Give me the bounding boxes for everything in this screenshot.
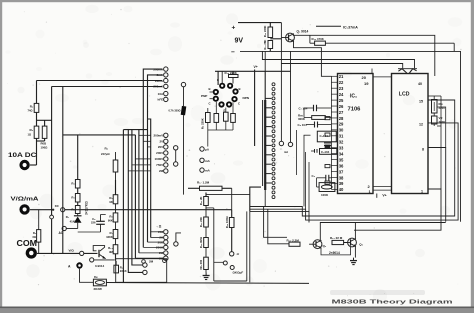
svg-text:IC₁37mA: IC₁37mA xyxy=(343,26,358,30)
wire rail rC xyxy=(132,130,143,265)
socket hFE pin right-upper xyxy=(232,88,238,94)
resistor R2 74ohm xyxy=(34,103,39,112)
resistor R&#8327; divider xyxy=(115,222,117,230)
svg-text:1: 1 xyxy=(421,190,423,194)
svg-text:34: 34 xyxy=(339,151,344,156)
svg-text:25: 25 xyxy=(339,98,344,103)
connector arrow top bar xyxy=(398,68,417,70)
wire box circle feed xyxy=(214,261,223,263)
node mA jack circle xyxy=(230,252,234,256)
wire lcd feed upper xyxy=(262,51,414,68)
resistor hFE bias a xyxy=(214,114,219,123)
switch wafer B contact 6 xyxy=(272,106,275,109)
wire feed to R20 xyxy=(268,209,289,244)
switch wafer B contact 17 xyxy=(272,158,275,161)
svg-text:AC: AC xyxy=(59,231,64,235)
resistor R22 2K xyxy=(204,197,209,206)
svg-text:C₇ 104: C₇ 104 xyxy=(299,107,308,111)
socket hFE pin right-lower xyxy=(231,96,237,102)
fuse R5 2K 2W xyxy=(93,279,106,286)
svg-text:200V: 200V xyxy=(156,151,163,155)
svg-text:mA: mA xyxy=(205,159,211,163)
switch wafer B contact 9 xyxy=(272,120,275,123)
svg-text:221K: 221K xyxy=(120,269,128,273)
svg-text:750V: 750V xyxy=(156,163,163,167)
wire hFE top bus xyxy=(215,70,291,72)
svg-text:31: 31 xyxy=(339,134,344,139)
wire IC bottom links xyxy=(373,185,392,187)
svg-text:DC: DC xyxy=(55,204,59,208)
svg-text:R₂₃ 22K: R₂₃ 22K xyxy=(199,217,203,227)
svg-text:10A: 10A xyxy=(158,92,164,96)
svg-text:1000V: 1000V xyxy=(155,157,164,161)
wire R11 bottom xyxy=(269,49,271,52)
svg-text:2M: 2M xyxy=(159,169,164,173)
wire Q1 emitter to IC pin21 xyxy=(294,41,332,76)
svg-text:R₁₂ 470K: R₁₂ 470K xyxy=(312,37,325,41)
node box circle b xyxy=(163,259,167,263)
svg-text:C₈ 104: C₈ 104 xyxy=(298,123,307,127)
wire C5 bottom link xyxy=(78,231,101,233)
svg-text:V+: V+ xyxy=(382,194,386,198)
svg-text:R₄: R₄ xyxy=(71,208,75,212)
svg-text:+: + xyxy=(232,25,236,32)
svg-text:37: 37 xyxy=(339,169,344,174)
svg-text:C₂104: C₂104 xyxy=(320,134,329,138)
wire rail rG from bank1 row2 xyxy=(148,75,163,242)
wire R19 bottom to A node xyxy=(231,228,233,252)
svg-text:29: 29 xyxy=(339,122,344,127)
switch wafer B contact 20 xyxy=(272,172,275,175)
resistor R11 28K xyxy=(268,41,273,49)
node lone contact a xyxy=(143,263,147,267)
transistor Q4 collector loop xyxy=(93,246,104,251)
svg-text:20V: 20V xyxy=(158,145,163,149)
svg-text:R₁₇ 1.2M: R₁₇ 1.2M xyxy=(197,181,210,185)
resistor R14 117K c xyxy=(75,206,80,214)
wire bottom bus xyxy=(106,282,309,285)
svg-text:39: 39 xyxy=(339,181,344,186)
svg-text:12: 12 xyxy=(419,123,423,127)
svg-text:R₆ 220K: R₆ 220K xyxy=(201,118,205,129)
potentiometer VR1 200 xyxy=(204,257,209,269)
switch wafer B contact 14 xyxy=(272,144,275,147)
svg-text:2×9014: 2×9014 xyxy=(329,251,340,255)
svg-text:R₂₅ 9MΩ: R₂₅ 9MΩ xyxy=(199,236,203,248)
node wafer B aux contact a xyxy=(279,141,283,145)
svg-text:19: 19 xyxy=(364,81,369,86)
LCD body xyxy=(392,74,429,194)
svg-text:2200: 2200 xyxy=(439,106,446,110)
svg-text:↓↓: ↓↓ xyxy=(280,148,283,151)
svg-text:R₁₀ 220K: R₁₀ 220K xyxy=(263,26,267,37)
svg-text:15: 15 xyxy=(419,100,423,104)
capacitor C2 104 box xyxy=(317,131,336,142)
svg-text:32: 32 xyxy=(339,140,344,145)
svg-text:C: C xyxy=(209,102,211,106)
ground Q3 emitter xyxy=(353,258,355,261)
wire Q3 emitter down xyxy=(354,247,356,258)
wire rail rB xyxy=(128,130,143,273)
node lone contact b xyxy=(143,270,147,274)
socket hFE pin bottom-right xyxy=(226,101,232,107)
svg-text:2M: 2M xyxy=(149,260,154,264)
wire chainY bottom xyxy=(115,254,117,261)
svg-text:Ru: Ru xyxy=(94,275,98,279)
svg-text:38: 38 xyxy=(339,175,344,180)
switch wafer B contact 16 xyxy=(272,153,275,156)
svg-text:V/Ω/mA: V/Ω/mA xyxy=(11,197,40,203)
wire LCD pin1 rail xyxy=(354,189,441,230)
terminal box bottom centre xyxy=(206,207,214,209)
svg-text:R₁₉ 100Ω: R₁₉ 100Ω xyxy=(225,216,229,228)
switch bank2 aux contact a xyxy=(174,146,178,150)
svg-text:900K: 900K xyxy=(106,235,112,239)
wire A to fuse xyxy=(80,269,94,283)
switch wafer B contact 15 xyxy=(272,149,275,152)
component stub box pin31 xyxy=(325,133,330,136)
switch wafer B contact 23 xyxy=(272,186,275,189)
wire R21 to Q3 base xyxy=(344,242,347,244)
wire osc left xyxy=(316,178,318,187)
switch wafer B contact 25 xyxy=(272,196,275,199)
wire Q3 collector up xyxy=(354,223,356,239)
svg-text:V/Ω: V/Ω xyxy=(69,249,75,253)
switch bank2 aux contact b xyxy=(174,162,178,166)
wire R12 rail xyxy=(325,42,454,44)
resistor R&#8329; divider xyxy=(115,180,117,195)
svg-text:200mA: 200mA xyxy=(153,85,164,89)
wire bus to R0B xyxy=(51,87,53,254)
wire pin20 stub xyxy=(371,69,373,74)
svg-text:NPN: NPN xyxy=(243,96,250,100)
svg-text:M830B Theory Diagram: M830B Theory Diagram xyxy=(332,300,453,306)
resistor VR 780K box xyxy=(432,116,438,124)
socket hFE pin top-right xyxy=(227,83,233,89)
wire battery plus rail xyxy=(238,22,281,24)
svg-text:74Ω: 74Ω xyxy=(28,109,33,113)
svg-text:↓A: ↓A xyxy=(236,252,239,256)
wire Q1 collector rail xyxy=(293,34,435,77)
node socket mA2 xyxy=(200,168,204,172)
resistor R&#8328; divider xyxy=(115,204,117,213)
wire wafer B top feed xyxy=(264,71,266,100)
switch bank3 aux contact xyxy=(174,242,178,246)
switch wafer B contact 4 xyxy=(272,97,275,100)
switch wafer B contact 18 xyxy=(272,163,275,166)
node socket uA xyxy=(200,147,204,151)
svg-text:6Ω: 6Ω xyxy=(32,235,36,239)
wire rail rE xyxy=(138,130,140,253)
wire COM to Q4 base xyxy=(37,252,98,254)
wire wafer box bottom xyxy=(250,205,258,207)
svg-text:→Ω: →Ω xyxy=(156,225,162,229)
svg-text:20mA: 20mA xyxy=(155,79,164,83)
resistor R0B 100ohm xyxy=(42,126,47,138)
node DC junction xyxy=(61,208,65,212)
resistor Rw 2200 box xyxy=(432,100,438,114)
wire chainX feed xyxy=(77,135,79,180)
socket hFE pin top-left xyxy=(219,83,225,89)
wire caps column down xyxy=(303,135,305,206)
jack V/ohm/mA terminal xyxy=(19,204,29,214)
wire V/ohm/mA bus xyxy=(30,209,53,211)
switch wafer B bus xyxy=(264,100,266,190)
resistor R16 117K a xyxy=(75,180,80,189)
svg-text:20: 20 xyxy=(362,75,367,80)
wire V+ stub xyxy=(254,70,256,72)
wire feed to R21 row xyxy=(264,207,287,238)
zener protection device xyxy=(181,106,187,116)
node mA tap circle xyxy=(50,215,54,219)
svg-text:780K: 780K xyxy=(439,120,446,124)
svg-text:LCD: LCD xyxy=(399,91,410,97)
diode D1 4148 xyxy=(74,215,82,217)
wire bank2 aux bracket xyxy=(175,150,177,162)
svg-text:28: 28 xyxy=(339,116,344,121)
capacitor C5 xyxy=(101,214,106,216)
svg-text:247μΩ: 247μΩ xyxy=(101,152,110,156)
svg-text:27: 27 xyxy=(339,110,344,115)
wire R2-R3 xyxy=(36,112,38,126)
wire R17 leads xyxy=(188,187,200,189)
resistor R4 221K vertical xyxy=(114,265,119,273)
wire left vertical mid box to COM row xyxy=(62,87,64,254)
svg-text:24: 24 xyxy=(339,92,344,97)
socket hFE pin bottom-left xyxy=(218,101,224,107)
svg-text:R₁₁ 28K: R₁₁ 28K xyxy=(263,40,267,50)
svg-text:33: 33 xyxy=(339,146,344,151)
wire Q1 collector to R12 stub xyxy=(309,35,311,43)
transistor Q3 9014 xyxy=(348,238,357,247)
capacitor C2 plates below xyxy=(324,142,331,144)
svg-text:R₂₂ 2K: R₂₂ 2K xyxy=(199,196,203,205)
jack COM terminal xyxy=(26,247,37,258)
jack 10A DC terminal xyxy=(19,160,29,170)
svg-text:3×117KΩ: 3×117KΩ xyxy=(85,201,89,215)
resistor R19 100 xyxy=(229,218,234,228)
wire aux a vertical from battery plus rail xyxy=(280,23,282,142)
transistor Q1 9014 xyxy=(286,33,295,42)
node V out circle xyxy=(80,251,84,255)
node box circle a xyxy=(142,260,146,264)
svg-text:36: 36 xyxy=(339,163,344,168)
svg-text:Q₃: Q₃ xyxy=(359,243,363,247)
wire nested rail 1 xyxy=(250,100,455,216)
switch wafer B contact 7 xyxy=(272,111,275,114)
wire rail bus upper xyxy=(123,129,148,131)
switch wafer B contact 13 xyxy=(272,139,275,142)
switch wafer B contact 19 xyxy=(272,167,275,170)
svg-text:R₁₃: R₁₃ xyxy=(108,246,113,250)
svg-text:35: 35 xyxy=(339,157,344,162)
svg-text:90K: 90K xyxy=(108,218,113,222)
wire bottom chain feed xyxy=(205,193,207,197)
svg-text:40: 40 xyxy=(339,187,344,192)
wire aux b vertical xyxy=(290,51,292,142)
wire zener feed xyxy=(183,87,185,106)
wire caps vertical left xyxy=(303,108,305,118)
connector arrow right wing into LCD xyxy=(409,69,416,73)
svg-text:1Ω: 1Ω xyxy=(28,133,32,137)
capacitor C3 plates left xyxy=(314,149,316,153)
svg-text:100K: 100K xyxy=(321,193,329,197)
svg-text:2V: 2V xyxy=(160,140,164,144)
socket hFE pin left-upper xyxy=(213,89,219,95)
wire zener down xyxy=(183,115,185,195)
node A out donut xyxy=(76,262,82,268)
wire osc rail up a xyxy=(305,152,307,209)
wire chainY top xyxy=(115,180,117,195)
transistor Q4 9014 base bar xyxy=(98,250,100,257)
svg-text:200mV: 200mV xyxy=(154,134,164,138)
bottom mid terminal box xyxy=(116,259,167,283)
svg-text:2mA: 2mA xyxy=(157,73,164,77)
resistor R&#8321;&#8323; divider xyxy=(115,239,117,245)
svg-text:2K2W: 2K2W xyxy=(94,287,103,291)
svg-text:40: 40 xyxy=(418,82,422,86)
wire IC to LCD link xyxy=(373,76,392,78)
wire nested rail 3 xyxy=(250,211,309,222)
component stub box pin33 dark xyxy=(325,145,331,149)
wire chainX joins xyxy=(77,188,79,194)
svg-text:mA: mA xyxy=(284,150,288,154)
svg-text:9K: 9K xyxy=(109,200,112,204)
wire rail rF from bank1 row1 xyxy=(143,69,162,247)
svg-text:B: B xyxy=(209,87,211,91)
label IC2 current xyxy=(316,25,341,27)
node socket mA xyxy=(200,158,204,162)
wire IC pin stub bus xyxy=(330,76,332,189)
svg-text:R₂₁ 22 M: R₂₁ 22 M xyxy=(330,236,343,240)
switch wafer B contact 22 xyxy=(272,182,275,185)
wire LCD pin8 rail xyxy=(428,148,446,222)
svg-text:V+: V+ xyxy=(254,65,258,69)
svg-text:hFE: hFE xyxy=(158,98,164,102)
switch wafer B contact 10 xyxy=(272,125,275,128)
wire top-left bus lower xyxy=(52,86,162,88)
wire wafer box left xyxy=(250,187,261,211)
node AC circle xyxy=(62,226,66,230)
resistor hFE bias b xyxy=(224,112,229,121)
svg-text:10A DC: 10A DC xyxy=(8,152,37,159)
svg-text:B: B xyxy=(239,87,241,91)
switch wafer B contact 3 xyxy=(272,92,275,95)
svg-text:7106: 7106 xyxy=(348,107,362,113)
socket hFE pin left-lower xyxy=(213,96,219,102)
resistor R10 220K xyxy=(268,27,273,38)
svg-text:COM: COM xyxy=(17,239,38,248)
resistor R0 shunt xyxy=(37,230,41,243)
switch wafer B contact 24 xyxy=(272,191,275,194)
wire osc rail up b xyxy=(308,162,310,211)
resistor R25 9M xyxy=(204,238,209,248)
component stub box pin28 xyxy=(325,117,330,120)
wire socket feeds xyxy=(221,71,223,83)
svg-text:200mA: 200mA xyxy=(153,67,164,71)
svg-text:ΩKΩμF: ΩKΩμF xyxy=(233,271,244,275)
wire nested rail 2 xyxy=(250,123,458,220)
switch wafer B contact 5 xyxy=(272,102,275,105)
node out circle a xyxy=(223,261,227,265)
transistor Q2 9014 xyxy=(313,240,322,249)
wire battery minus rail xyxy=(240,51,461,221)
wire top-left bus upper xyxy=(37,80,163,82)
svg-text:IC₁: IC₁ xyxy=(350,94,357,100)
op-amp U1 ICL7106 body xyxy=(338,74,374,194)
wire rail rA xyxy=(122,130,124,283)
wire mA node to box xyxy=(94,259,115,261)
resistor Rosc 100K box xyxy=(319,183,335,192)
wire rail rH xyxy=(148,119,151,238)
svg-text:C: C xyxy=(238,102,240,106)
node mA out circle xyxy=(90,258,94,262)
switch wafer B contact 11 xyxy=(272,130,275,133)
switch wafer B contact 1 xyxy=(272,83,275,86)
svg-text:C₃104: C₃104 xyxy=(321,150,330,154)
wire R2 top xyxy=(36,81,38,104)
resistor R23 22K xyxy=(204,217,209,227)
node out circle b xyxy=(230,266,234,270)
switch wafer B contact 21 xyxy=(272,177,275,180)
wire right boxes bus xyxy=(433,96,435,100)
svg-text:Q₁ 9014: Q₁ 9014 xyxy=(297,30,309,34)
switch wafer B contact 12 xyxy=(272,135,275,138)
wire mid box top bus xyxy=(63,134,136,136)
wire lcd feed lower xyxy=(281,64,402,69)
node wafer B aux contact b xyxy=(288,142,292,146)
transistor Q4 emitter xyxy=(100,255,106,259)
svg-text:26: 26 xyxy=(339,104,344,109)
wire Q2 emitter link xyxy=(321,247,351,255)
node zener top contact xyxy=(181,82,185,86)
svg-text:VR₁ 200: VR₁ 200 xyxy=(199,259,203,270)
svg-text:23: 23 xyxy=(339,86,344,91)
wire resistors to 10A jack xyxy=(36,138,38,165)
svg-text:mA: mA xyxy=(205,169,211,173)
resistor hFE bias c xyxy=(231,114,236,123)
wire rail rD xyxy=(134,135,136,258)
component stub box pin39 xyxy=(325,181,330,184)
resistor R3 1ohm xyxy=(34,126,39,138)
wire R19 top xyxy=(231,210,233,218)
svg-text:226: 226 xyxy=(91,221,96,225)
resistor R15 117K b xyxy=(75,194,80,203)
svg-text:22: 22 xyxy=(339,80,344,85)
capacitor C3 104 box xyxy=(320,149,337,155)
ground VR1 xyxy=(205,273,207,276)
wire R10-R11 tap to Q1 base xyxy=(270,38,281,40)
svg-text:0.7A 350Ω: 0.7A 350Ω xyxy=(168,110,180,113)
svg-text:30: 30 xyxy=(339,128,344,133)
wire VR1 to ground xyxy=(205,270,207,273)
svg-text:0.9014: 0.9014 xyxy=(95,264,105,268)
wire hFE bottom join xyxy=(208,129,233,131)
wire wafer box left descent xyxy=(249,211,251,282)
wire socket left bracket xyxy=(210,91,213,93)
svg-text:R₃: R₃ xyxy=(29,128,33,132)
svg-text:4148: 4148 xyxy=(70,219,77,223)
wire Q2 collector rail xyxy=(320,223,445,241)
svg-text:8: 8 xyxy=(422,148,424,152)
svg-text:PNP: PNP xyxy=(201,94,207,98)
switch wafer B contact 8 xyxy=(272,116,275,119)
svg-text:21: 21 xyxy=(339,74,344,79)
wire bank3 aux bracket xyxy=(176,233,181,242)
switch wafer B contact 2 xyxy=(272,88,275,91)
svg-text:9V: 9V xyxy=(235,38,244,45)
svg-text:100Ω: 100Ω xyxy=(41,146,49,150)
